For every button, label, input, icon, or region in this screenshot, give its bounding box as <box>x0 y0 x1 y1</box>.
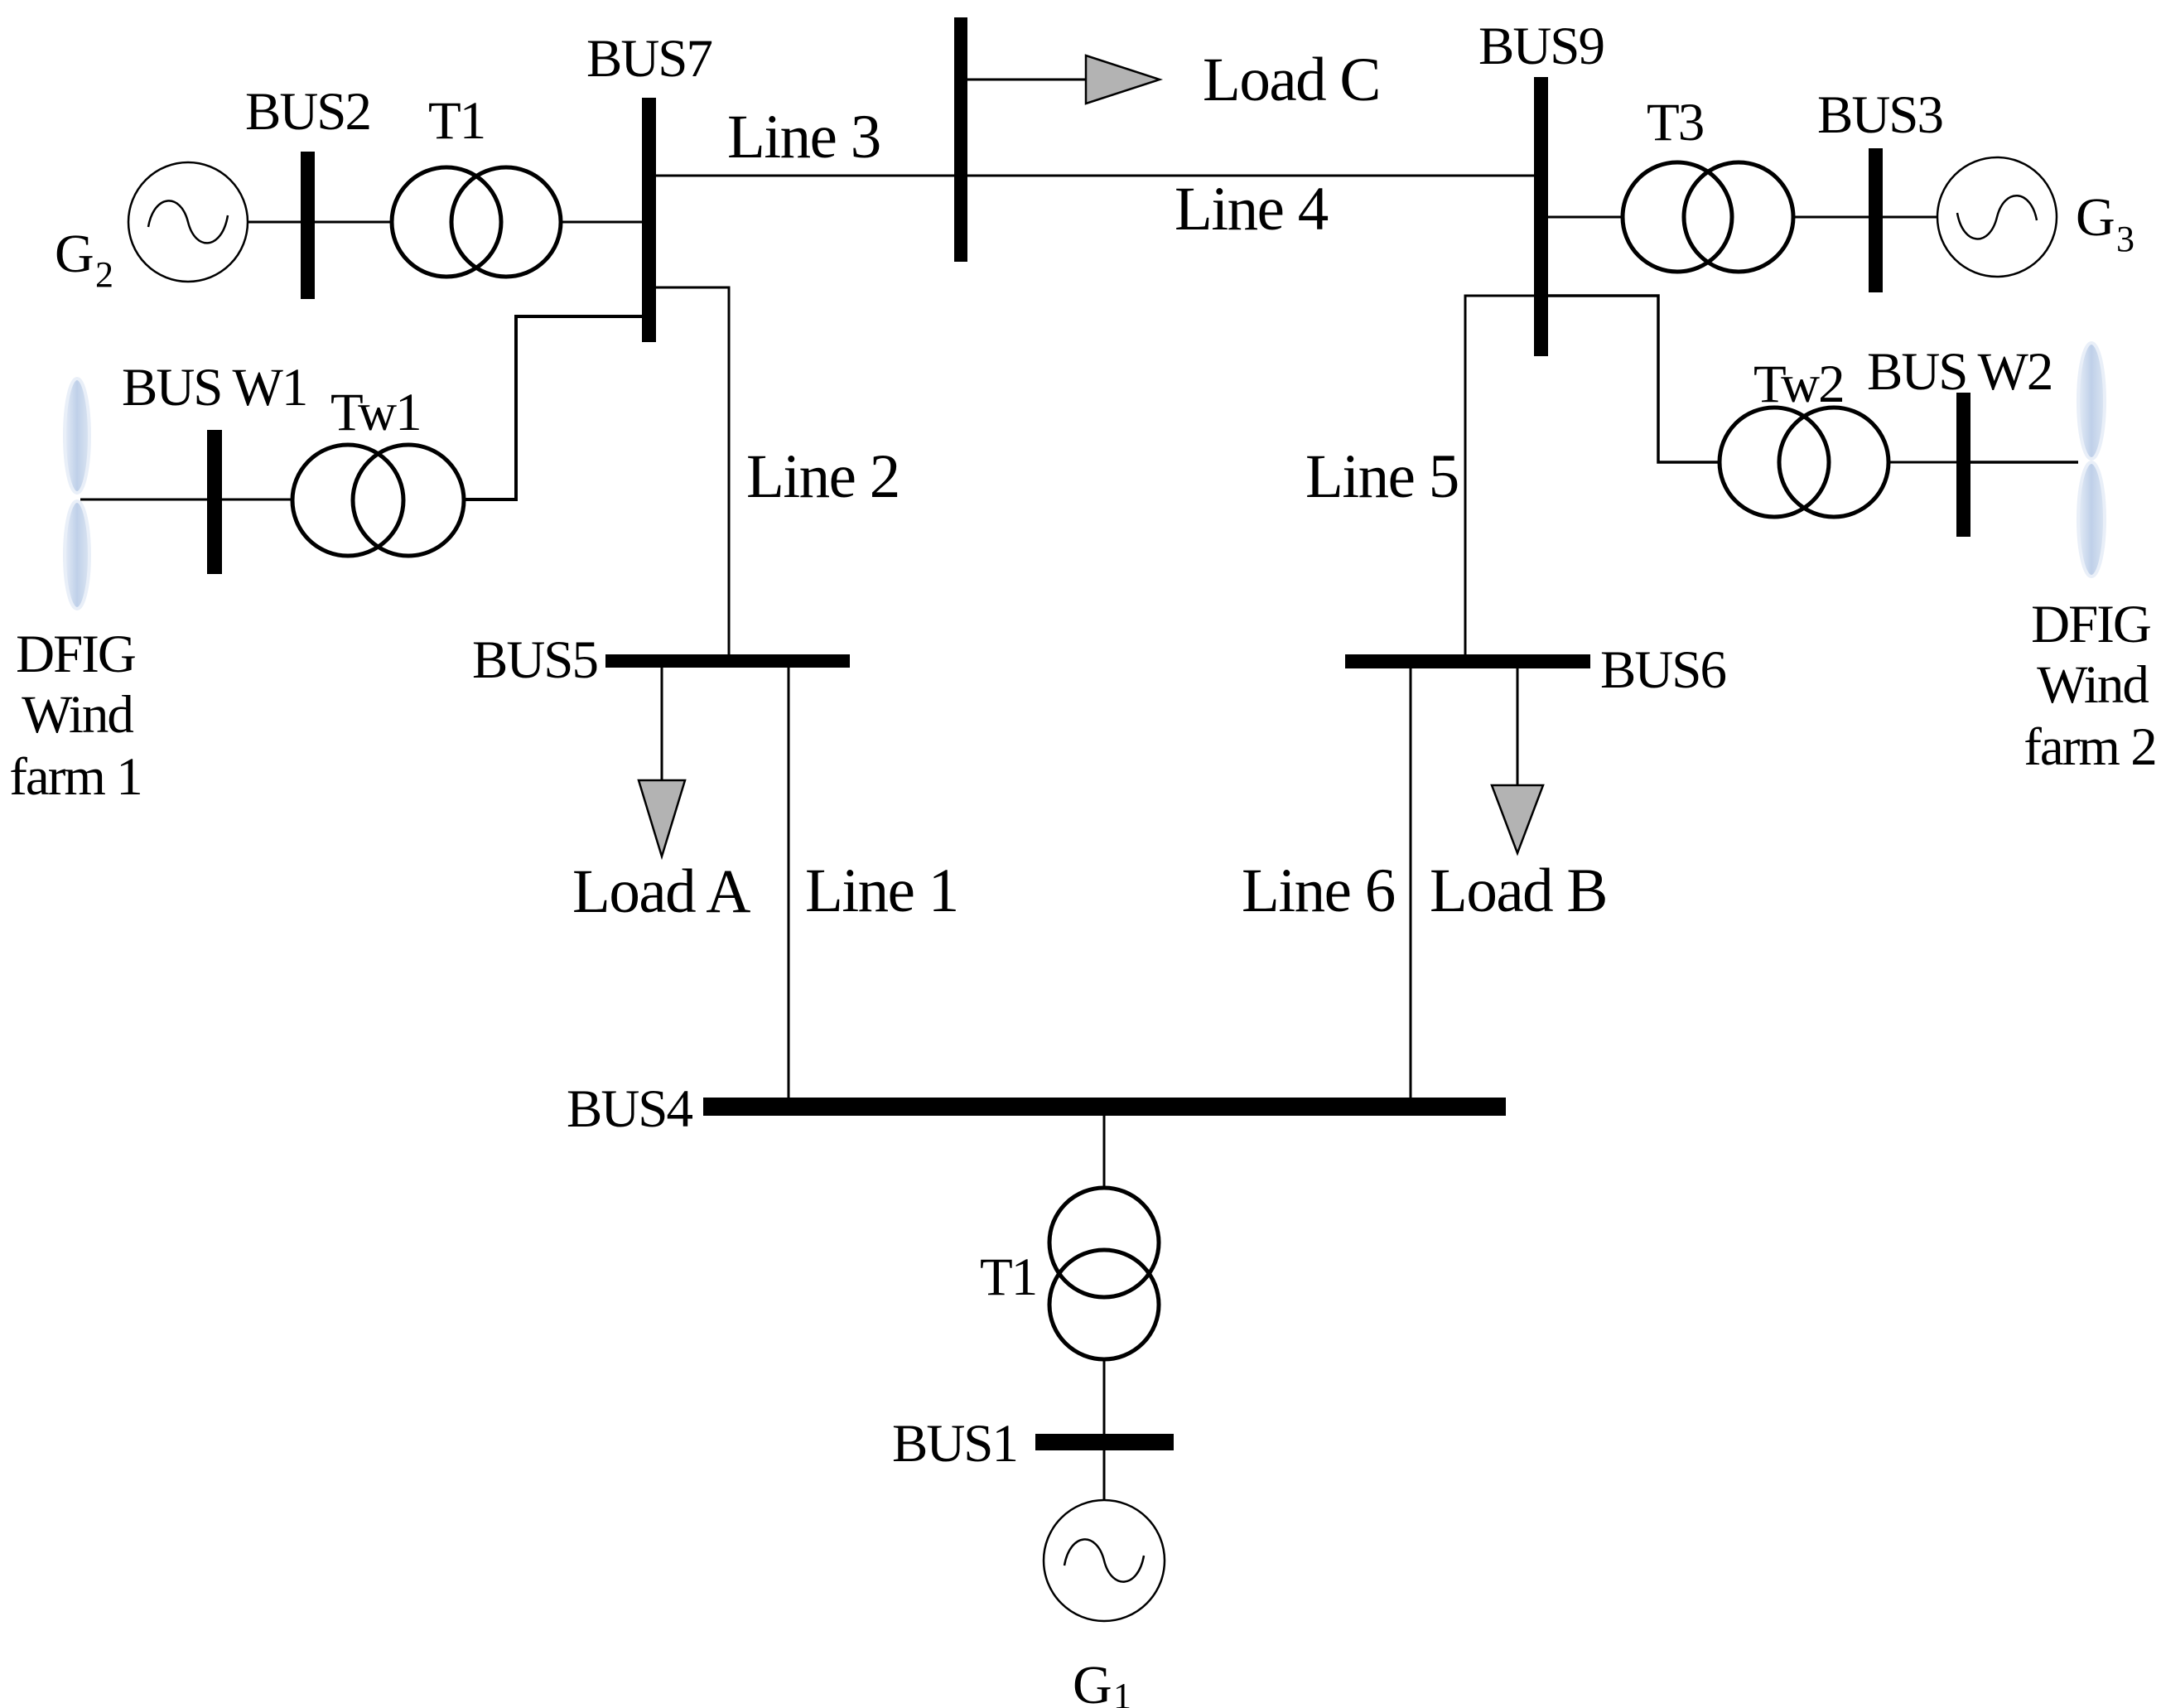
bus BUS3 <box>1869 148 1883 292</box>
svg-text:Tw2: Tw2 <box>1753 355 1844 414</box>
transformer Tw2 <box>1720 408 1829 517</box>
svg-text:BUS3: BUS3 <box>1817 85 1942 145</box>
bus BUS2 <box>301 152 315 299</box>
wire BUS9 elbow to Line 5 <box>1465 296 1534 654</box>
wire BUS9 to T3 <box>1548 216 1623 219</box>
svg-text:Line 3: Line 3 <box>727 103 880 171</box>
bus BUS5 <box>605 654 850 668</box>
load Load A arrow <box>639 780 685 856</box>
svg-text:farm 1: farm 1 <box>9 747 141 807</box>
svg-text:1: 1 <box>1113 1676 1131 1708</box>
svg-text:Load C: Load C <box>1203 46 1380 114</box>
svg-text:Load A: Load A <box>572 857 750 926</box>
svg-text:T1: T1 <box>428 91 485 151</box>
svg-text:BUS9: BUS9 <box>1478 17 1604 76</box>
bus BUS7 <box>642 98 656 342</box>
wire BUS1 to G1 <box>1103 1450 1106 1501</box>
wire Line 3 / Line 4 (BUS7 to BUS9) <box>656 175 1534 177</box>
svg-text:BUS4: BUS4 <box>567 1079 692 1139</box>
svg-text:3: 3 <box>2116 219 2134 259</box>
generator G2 <box>128 162 248 282</box>
generator G1 <box>1044 1500 1165 1621</box>
node Load C bus <box>954 17 967 262</box>
svg-text:T3: T3 <box>1647 93 1703 152</box>
svg-text:G: G <box>1073 1655 1112 1708</box>
svg-text:2: 2 <box>95 254 113 295</box>
svg-text:BUS1: BUS1 <box>892 1414 1017 1474</box>
svg-text:BUS7: BUS7 <box>586 29 711 89</box>
load Load B arrow <box>1492 785 1543 853</box>
svg-text:BUS2: BUS2 <box>245 82 370 142</box>
transformer T1 (top left) <box>392 167 501 277</box>
wire wind farm 1 to BUS W1 and Tw1 <box>80 499 207 501</box>
wire Load B drop <box>1517 668 1519 785</box>
svg-text:Tw1: Tw1 <box>330 383 421 442</box>
bus BUS W2 <box>1956 393 1970 537</box>
generator G3 <box>1937 157 2057 277</box>
svg-text:BUS5: BUS5 <box>472 630 597 690</box>
transformer T3 <box>1623 162 1732 272</box>
wire Tw1 to BUS7 <box>464 316 642 499</box>
svg-text:Line 5: Line 5 <box>1305 442 1459 511</box>
wire Load A drop <box>661 668 663 780</box>
wire Line 6 (BUS6 to BUS4) <box>1410 668 1412 1098</box>
bus BUS1 <box>1035 1434 1174 1450</box>
svg-text:Wind: Wind <box>2037 655 2149 715</box>
svg-text:DFIG: DFIG <box>2031 595 2150 654</box>
svg-text:BUS W1: BUS W1 <box>122 358 306 417</box>
wire BUS7 elbow to Line 2 <box>656 287 729 654</box>
svg-text:Line 6: Line 6 <box>1242 856 1395 925</box>
wire T3 to BUS3 <box>1793 216 1869 219</box>
wire Load C tap <box>967 79 1086 81</box>
bus BUS4 <box>703 1098 1506 1116</box>
svg-text:T1: T1 <box>980 1247 1036 1307</box>
wire G2 to BUS2 <box>247 221 301 224</box>
wind turbine blades (DFIG wind farm 2) <box>2078 343 2105 459</box>
transformer T1 (bottom) <box>1049 1188 1159 1297</box>
wire T1 to BUS7 <box>561 221 642 224</box>
svg-text:G: G <box>55 224 94 284</box>
svg-text:DFIG: DFIG <box>16 625 135 684</box>
wire Line 1 (BUS5 to BUS4) <box>788 668 790 1098</box>
svg-text:BUS W2: BUS W2 <box>1867 342 2052 402</box>
svg-text:farm 2: farm 2 <box>2024 717 2155 777</box>
wire BUS9 to Tw2 <box>1548 296 1720 462</box>
wire BUS3 to G3 <box>1883 216 1938 219</box>
svg-text:Wind: Wind <box>22 685 133 745</box>
svg-text:BUS6: BUS6 <box>1600 640 1725 700</box>
svg-text:G: G <box>2076 187 2115 248</box>
bus BUS6 <box>1345 654 1590 668</box>
svg-text:Line 2: Line 2 <box>746 442 900 511</box>
wire Tw2 to BUS W2 and wind farm 2 <box>1888 461 1956 464</box>
svg-text:Line 4: Line 4 <box>1175 175 1329 244</box>
wire BUS4 to T1 (bottom) <box>1103 1116 1106 1189</box>
svg-text:Line 1: Line 1 <box>805 856 958 925</box>
transformer Tw1 <box>292 445 403 556</box>
svg-text:Load B: Load B <box>1430 856 1607 925</box>
load Load C arrow <box>1086 55 1160 104</box>
wind turbine blades (DFIG wind farm 1) <box>65 379 89 493</box>
wire BUS2 to T1 <box>315 221 393 224</box>
bus BUS W1 <box>207 430 222 574</box>
bus BUS9 <box>1534 77 1548 356</box>
wire T1 to BUS1 <box>1103 1359 1106 1434</box>
